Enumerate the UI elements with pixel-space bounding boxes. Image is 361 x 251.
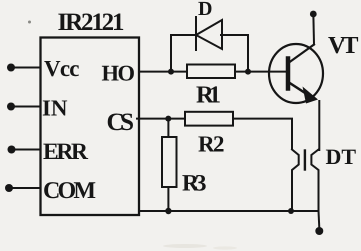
node junction R3 bottom [165, 208, 171, 214]
wire R2 to DT [233, 119, 292, 149]
svg-text:R1: R1 [196, 82, 221, 109]
node junction diode right [245, 69, 251, 75]
DT middle bar [304, 151, 306, 170]
DT right electrode [311, 150, 319, 229]
svg-text:Vcc: Vcc [44, 56, 80, 81]
resistor R1 [187, 65, 235, 79]
wire COM terminal to IC [11, 187, 40, 189]
node bottom terminal [315, 227, 323, 235]
wire CS node to R3 [167, 119, 169, 137]
svg-text:HO: HO [102, 61, 136, 86]
svg-text:COM: COM [43, 178, 96, 204]
scan speck [28, 21, 31, 24]
wire IN terminal to IC [13, 106, 40, 108]
node Vcc terminal dot [7, 64, 15, 72]
svg-text:D: D [198, 0, 212, 20]
wire Vcc terminal to IC [13, 67, 40, 69]
node collector top terminal [310, 11, 317, 18]
svg-text:R3: R3 [182, 171, 207, 197]
transistor VT collector stroke [289, 45, 314, 63]
diode D cathode bar [195, 17, 197, 50]
svg-text:IN: IN [42, 96, 68, 121]
node junction diode left [168, 69, 174, 75]
wire ERR terminal to IC [14, 149, 41, 151]
transistor VT emitter stroke [289, 83, 309, 96]
svg-text:IR2121: IR2121 [58, 9, 125, 36]
node junction DT left bottom [288, 208, 294, 214]
wire diode row right [221, 34, 248, 36]
resistor R2 [185, 112, 233, 126]
transistor VT base bar [286, 59, 291, 89]
scan smudge bottom [163, 244, 207, 248]
wire diode right vertical [247, 35, 249, 72]
wire R1 to transistor base [235, 71, 285, 73]
diode D triangle [196, 20, 222, 49]
op-amp U1 IC box IR2121 [41, 38, 140, 216]
node COM terminal dot [5, 184, 13, 192]
wire HO pin to R1 [139, 71, 187, 73]
wire diode left vertical [170, 35, 172, 72]
wire bottom rail [139, 210, 319, 212]
transistor VT emitter arrowhead [303, 87, 319, 104]
node ERR terminal dot [8, 146, 16, 154]
node junction CS [165, 116, 171, 122]
wire CS pin to node [137, 118, 185, 120]
svg-text:CS: CS [107, 109, 135, 136]
DT left electrode [292, 150, 299, 212]
wire diode row left [171, 34, 196, 36]
svg-text:DT: DT [326, 144, 357, 169]
wire R3 to rail [167, 187, 169, 211]
svg-text:ERR: ERR [43, 139, 89, 165]
transistor Q1 VT circle [269, 44, 323, 103]
node IN terminal dot [7, 103, 15, 111]
resistor R3 [162, 137, 177, 187]
wire emitter down [318, 101, 320, 150]
svg-text:VT: VT [328, 32, 359, 59]
wire collector to top terminal [312, 16, 315, 45]
svg-text:R2: R2 [198, 132, 225, 157]
